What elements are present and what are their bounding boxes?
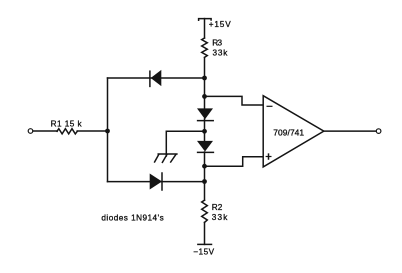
svg-text:diodes 1N914's: diodes 1N914's [101, 214, 163, 223]
svg-text:R2: R2 [212, 203, 223, 212]
svg-text:R1 15 k: R1 15 k [51, 119, 83, 128]
svg-text:709/741: 709/741 [273, 128, 304, 138]
svg-text:+15V: +15V [209, 20, 232, 29]
svg-text:33k: 33k [212, 213, 228, 222]
svg-text:−15V: −15V [193, 248, 214, 257]
svg-text:33k: 33k [213, 48, 229, 57]
svg-text:R3: R3 [212, 39, 222, 48]
